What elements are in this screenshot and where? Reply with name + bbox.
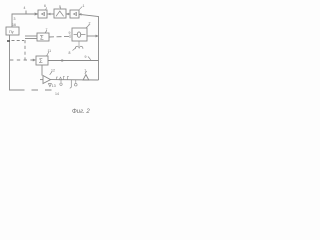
svg-text:3: 3 [14, 17, 16, 21]
svg-text:16: 16 [12, 23, 16, 27]
svg-text:6: 6 [44, 4, 46, 8]
svg-text:14: 14 [55, 92, 59, 96]
svg-text:12: 12 [51, 69, 55, 73]
svg-text:1: 1 [83, 4, 85, 8]
svg-text:13: 13 [52, 84, 56, 88]
svg-text:2: 2 [89, 22, 91, 26]
svg-text:4: 4 [24, 6, 26, 10]
svg-text:5: 5 [59, 5, 61, 9]
svg-text:Пу: Пу [9, 30, 14, 34]
svg-text:Σ: Σ [40, 36, 44, 42]
svg-text:7: 7 [46, 28, 48, 32]
svg-text:9: 9 [69, 31, 71, 35]
svg-text:7: 7 [84, 69, 86, 73]
svg-text:Σ: Σ [39, 59, 43, 65]
svg-text:Фиг. 2: Фиг. 2 [72, 109, 90, 115]
svg-text:9: 9 [85, 55, 87, 59]
svg-text:11: 11 [48, 49, 52, 53]
svg-text:8: 8 [69, 51, 71, 55]
